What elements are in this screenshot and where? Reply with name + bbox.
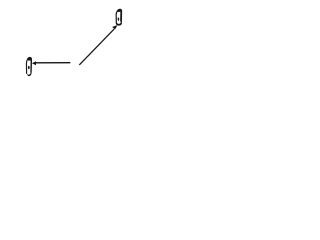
leader arrowhead pointing left at left part [32,61,36,65]
bold crown of right part [117,9,121,12]
darker right leg of left part [30,60,32,72]
leader line diagonal [79,29,114,65]
leader arrowhead pointing up-right at right part [112,25,117,30]
pinch mark on left part [28,66,30,70]
heavier bottom sweep of left part [27,74,30,77]
part symbol left (slanted narrow loop outline) [26,57,31,75]
thick bottom bar of right part [117,23,122,25]
background [0,0,150,87]
part symbol right (slanted narrow loop outline) [116,9,121,25]
leader line horizontal [36,62,70,64]
thicker right leg of right part [120,12,122,22]
white break in left part bottom loop [26,74,28,77]
bold crown of left part [28,57,31,60]
pinch mark on right part [118,17,120,21]
